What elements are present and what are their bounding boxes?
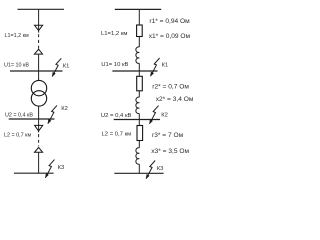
svg-text:К3: К3 — [157, 166, 164, 172]
svg-text:К1: К1 — [63, 64, 70, 70]
short-circuit point K1 (left diagram) — [52, 58, 61, 76]
wire: dashed overhead line L1 — [38, 34, 40, 48]
svg-text:К2: К2 — [161, 113, 168, 119]
svg-text:К3: К3 — [58, 165, 65, 171]
svg-text:x1* = 0,09 Ом: x1* = 0,09 Ом — [149, 33, 191, 40]
svg-text:r1* = 0,94 Ом: r1* = 0,94 Ом — [149, 18, 190, 25]
bus U2 0,4 kV — [9, 118, 55, 120]
svg-text:U2 = 0,4 кВ: U2 = 0,4 кВ — [5, 113, 33, 119]
transformer T primary winding — [31, 80, 46, 95]
short-circuit point K3 (left diagram) — [45, 160, 54, 178]
wire: resistor r3 to inductor x3 — [138, 141, 140, 148]
transformer T secondary winding — [31, 91, 46, 106]
resistor r1* — [137, 25, 143, 37]
node: bus at K2 (right diagram) — [114, 119, 160, 121]
wire: dashed cable line L2 — [38, 134, 40, 146]
wire: top bus to resistor r1 — [138, 9, 140, 25]
wire: resistor r1 to inductor x1 — [138, 37, 140, 48]
wire: drop from source bus to line L1 arrow — [38, 9, 40, 25]
line L2 bottom arrowhead (up triangle) — [35, 147, 43, 173]
short-circuit point K1 (right diagram) — [151, 58, 160, 76]
node: middle bus at K1 (right diagram) — [112, 70, 157, 72]
wire: transformer T to bus U2 — [38, 106, 40, 119]
line L1 top arrowhead (down triangle) — [35, 25, 43, 32]
line L2 top arrowhead (down triangle) — [35, 125, 43, 132]
wire: bus to resistor r3 — [138, 120, 140, 126]
wire: resistor r2 to inductor x2 — [138, 91, 140, 97]
svg-text:L2 = 0,7 км: L2 = 0,7 км — [4, 133, 31, 139]
svg-text:L1=1,2 км: L1=1,2 км — [5, 33, 29, 39]
line L1 bottom arrowhead (up triangle) — [34, 49, 42, 71]
svg-text:L1=1,2 км: L1=1,2 км — [101, 31, 127, 37]
inductor x1* — [136, 47, 139, 64]
svg-text:К1: К1 — [162, 62, 169, 68]
svg-text:L2 = 0,7 км: L2 = 0,7 км — [102, 132, 132, 138]
svg-text:r2* = 0,7 Ом: r2* = 0,7 Ом — [152, 84, 189, 91]
resistor r3* — [137, 126, 143, 141]
inductor x3* — [136, 148, 139, 164]
inductor x2* — [136, 97, 139, 113]
svg-text:x3* = 3,5 Ом: x3* = 3,5 Ом — [151, 148, 189, 155]
wire: bus U1 to transformer T — [38, 71, 40, 81]
short-circuit point K3 (right diagram) — [146, 161, 155, 179]
short-circuit point K2 (right diagram) — [150, 106, 159, 124]
wire: middle bus to resistor r2 — [138, 71, 140, 76]
wire: bus U2 to line L2 arrow — [38, 119, 40, 125]
bus: load busbar (bottom left) — [14, 172, 54, 174]
wire: inductor x2 to bus at K2 — [138, 114, 140, 120]
short-circuit point K2 (left diagram) — [48, 105, 57, 123]
svg-text:r3* = 7 Ом: r3* = 7 Ом — [152, 132, 184, 139]
bus: source busbar (top right, equivalent circuit) — [115, 8, 161, 10]
svg-text:U1= 10 кВ: U1= 10 кВ — [101, 62, 128, 68]
resistor r2* — [137, 76, 143, 91]
wire: inductor x3 to bottom bus — [138, 164, 140, 173]
svg-text:x2* = 3,4 Ом: x2* = 3,4 Ом — [156, 96, 194, 103]
bus: source busbar (top left) — [18, 8, 65, 10]
bus U1 10 kV — [10, 70, 63, 72]
svg-text:К2: К2 — [61, 106, 68, 112]
svg-text:U1= 10 кВ: U1= 10 кВ — [4, 62, 29, 68]
bus: load busbar (bottom right) — [114, 172, 163, 174]
svg-text:U2 = 0,4 кВ: U2 = 0,4 кВ — [101, 113, 132, 119]
wire: inductor x1 to middle bus — [138, 63, 140, 71]
